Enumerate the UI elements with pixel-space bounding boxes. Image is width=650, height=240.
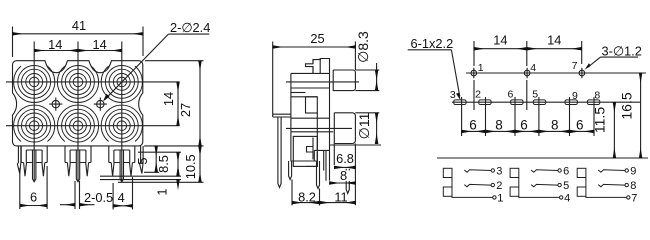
- body left edge: [291, 73, 317, 161]
- leader 6-1x2.2: [408, 50, 461, 101]
- svg-text:8.5: 8.5: [156, 155, 171, 173]
- dim 8 mid: [330, 182, 356, 184]
- svg-text:14: 14: [48, 37, 62, 52]
- hole 2.4 right: [94, 98, 107, 111]
- scallop arc A1: [14, 66, 55, 102]
- leader 3-d1.2: [585, 57, 638, 70]
- dim 6.8: [334, 144, 355, 206]
- halo: [337, 171, 350, 182]
- jack A3: [105, 66, 138, 99]
- dim 27 right: [145, 61, 204, 146]
- pin hole 7: [577, 68, 587, 78]
- svg-text:∅11: ∅11: [356, 112, 372, 139]
- svg-text:8: 8: [594, 90, 600, 102]
- dim 25: [273, 42, 356, 118]
- slot 9: [565, 100, 577, 105]
- rear pin lines: [313, 59, 320, 74]
- legs column 1: [21, 147, 47, 182]
- centerline row 1: [6, 81, 180, 83]
- slot 5: [533, 100, 545, 105]
- svg-text:3: 3: [450, 89, 456, 101]
- svg-text:3: 3: [496, 166, 502, 178]
- internal line c: [291, 96, 317, 98]
- svg-text:25: 25: [310, 31, 324, 46]
- scallop arc A2: [57, 66, 98, 102]
- bracket leg side: [278, 117, 281, 188]
- centerline row1 side: [286, 81, 359, 83]
- svg-text:6: 6: [469, 118, 477, 133]
- svg-text:4: 4: [564, 193, 570, 205]
- svg-text:7: 7: [572, 60, 578, 72]
- internal vertical: [316, 113, 318, 150]
- jack B3: [105, 109, 138, 142]
- svg-text:8: 8: [630, 180, 636, 192]
- scallop arc B2: [57, 105, 98, 141]
- pin mid side: [317, 161, 320, 189]
- svg-text:5: 5: [532, 89, 538, 101]
- line through slots: [452, 101, 641, 103]
- dim 41: [13, 27, 144, 58]
- jack A1: [18, 66, 51, 99]
- svg-text:16.5: 16.5: [619, 92, 635, 119]
- dim 1: [100, 170, 181, 185]
- slot 3: [454, 100, 466, 105]
- svg-text:10.5: 10.5: [183, 154, 198, 179]
- svg-text:11.5: 11.5: [592, 107, 608, 133]
- svg-text:1: 1: [478, 62, 484, 74]
- baseline bottom: [437, 157, 648, 159]
- pin hole 1: [469, 68, 479, 78]
- internal window lower: [293, 136, 317, 166]
- internal line d: [291, 117, 330, 119]
- svg-text:5: 5: [135, 157, 150, 164]
- slot 8: [587, 100, 599, 105]
- dim 8.2 and 11: [292, 180, 355, 206]
- svg-text:27: 27: [178, 103, 193, 117]
- svg-text:14: 14: [92, 37, 106, 52]
- scallop arc B1: [14, 105, 55, 141]
- dim 2-0.5: [60, 181, 95, 209]
- body bottom steps: [314, 150, 330, 180]
- centerline column 2: [77, 42, 79, 181]
- svg-text:2: 2: [496, 180, 502, 192]
- leader 2-d2.4: [103, 34, 209, 101]
- dim 5: [144, 146, 204, 172]
- centerline column 3: [121, 42, 123, 182]
- bracket horizontal: [273, 114, 291, 117]
- dim 4 bottom: [113, 177, 132, 210]
- barrel 11: [334, 113, 355, 144]
- contact spring: [306, 138, 317, 167]
- svg-text:∅8.3: ∅8.3: [355, 31, 371, 63]
- svg-text:14: 14: [547, 32, 561, 47]
- dim 16.5: [640, 73, 642, 158]
- rear body outline: [291, 59, 330, 74]
- svg-text:4: 4: [118, 190, 125, 205]
- svg-text:8: 8: [551, 118, 559, 133]
- schematic group 3: [577, 168, 630, 199]
- hole 2.4 left: [49, 98, 62, 111]
- legs column 3: [109, 147, 135, 182]
- svg-text:1: 1: [154, 188, 169, 195]
- svg-text:8.2: 8.2: [298, 190, 316, 205]
- legs column 2: [65, 147, 91, 182]
- dim d11: [330, 113, 381, 145]
- centerline column 1: [33, 42, 35, 181]
- dim 14 top pair: [34, 42, 122, 51]
- dim chain 6 8 6 8 6: [462, 97, 594, 136]
- flange line: [333, 144, 335, 166]
- svg-text:1: 1: [497, 193, 503, 205]
- svg-text:6.8: 6.8: [336, 151, 354, 166]
- dim 10.5: [118, 146, 204, 182]
- svg-text:5: 5: [563, 180, 569, 192]
- svg-text:6: 6: [563, 166, 569, 178]
- svg-text:9: 9: [572, 90, 578, 102]
- internal line b: [291, 92, 306, 94]
- svg-text:6: 6: [30, 190, 37, 205]
- svg-text:8: 8: [340, 168, 347, 183]
- jack A2: [62, 66, 95, 99]
- svg-text:2: 2: [475, 89, 481, 101]
- slot 2: [479, 100, 491, 105]
- dim d8.3: [355, 63, 379, 91]
- svg-text:6: 6: [520, 118, 528, 133]
- internal line e: [291, 131, 333, 133]
- scallop arc A3: [101, 66, 142, 102]
- svg-text:3-∅1.2: 3-∅1.2: [602, 44, 642, 59]
- svg-text:9: 9: [630, 166, 636, 178]
- dim 14 right: [177, 82, 179, 126]
- svg-text:2-∅2.4: 2-∅2.4: [170, 20, 210, 35]
- internal window upper: [306, 97, 318, 113]
- dim 11.5: [613, 102, 615, 158]
- bracket leg left: [17, 146, 21, 174]
- svg-text:4: 4: [530, 62, 536, 74]
- body front face: [329, 73, 331, 180]
- schematic group 2: [510, 168, 563, 199]
- scallop arc B3: [101, 105, 142, 141]
- pin left side: [289, 161, 292, 180]
- pin right side: [346, 169, 349, 194]
- svg-text:14: 14: [493, 32, 507, 47]
- svg-text:2-0.5: 2-0.5: [84, 190, 113, 205]
- jack B1: [18, 109, 51, 142]
- svg-text:7: 7: [631, 193, 637, 205]
- schematic group 1: [443, 168, 496, 199]
- internal line a: [291, 87, 330, 89]
- pin hole 4: [522, 68, 532, 78]
- svg-text:6-1x2.2: 6-1x2.2: [411, 36, 454, 51]
- barrel 8.3: [333, 70, 355, 91]
- svg-text:8: 8: [495, 118, 503, 133]
- svg-text:11: 11: [334, 190, 347, 205]
- jack B2: [62, 109, 95, 142]
- slot 6: [511, 100, 523, 105]
- body outline: [13, 61, 143, 146]
- svg-text:14: 14: [161, 92, 176, 106]
- svg-text:6: 6: [576, 118, 584, 133]
- dim 8.5: [100, 152, 181, 176]
- bracket leg right: [140, 146, 144, 174]
- svg-text:41: 41: [72, 18, 86, 33]
- centerline row 2: [6, 125, 180, 127]
- centerline row2 side: [286, 127, 352, 129]
- dim 14 pins pair: [474, 41, 582, 110]
- line through circles: [466, 72, 646, 74]
- svg-text:6: 6: [508, 89, 514, 101]
- dim 6 bottom: [20, 166, 47, 209]
